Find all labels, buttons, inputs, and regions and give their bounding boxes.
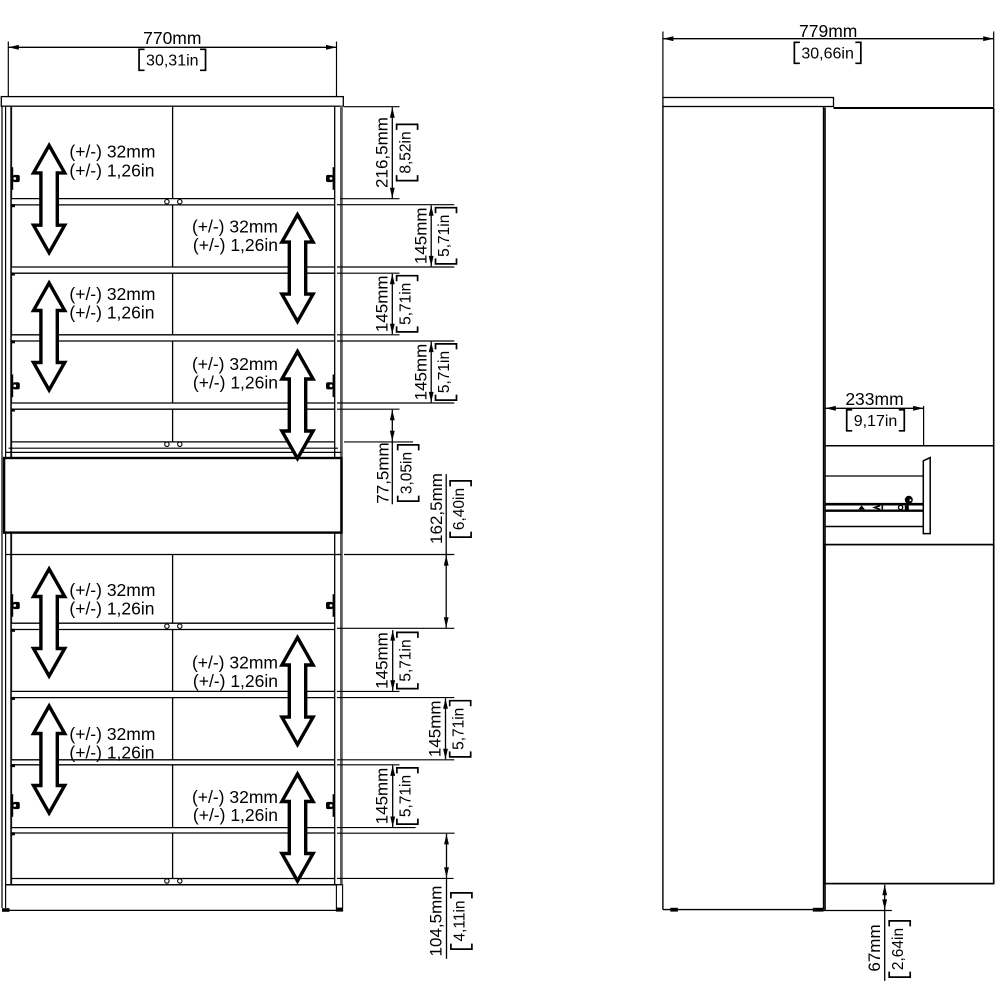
side drawer slide detail circle bbox=[899, 505, 903, 509]
svg-text:(+/-) 32mm: (+/-) 32mm bbox=[192, 217, 278, 237]
front left side panel outer line bbox=[1, 106, 3, 909]
drawer front panel bbox=[4, 458, 341, 533]
front center divider lower bbox=[172, 555, 174, 879]
adjustable shelf arrow A2 bbox=[282, 215, 313, 322]
front right side panel bbox=[340, 106, 343, 885]
svg-text:3,05in: 3,05in bbox=[398, 452, 415, 494]
upper doors bottom line bbox=[11, 441, 335, 443]
dimension 770mm extension line left bbox=[7, 42, 9, 107]
right foot outline bbox=[336, 885, 342, 908]
shelf 2 lower section bbox=[12, 691, 334, 697]
svg-text:67mm: 67mm bbox=[865, 924, 884, 971]
svg-text:779mm: 779mm bbox=[799, 21, 857, 41]
side drawer knob bbox=[905, 496, 913, 504]
side cabinet back edge bbox=[993, 108, 995, 884]
extension line y=833.2 bbox=[337, 832, 455, 834]
side open door bottom edge bbox=[663, 909, 824, 911]
extension line y=554.5 bbox=[344, 554, 454, 556]
svg-text:(+/-) 32mm: (+/-) 32mm bbox=[192, 354, 278, 374]
side drawer front panel bbox=[923, 458, 930, 534]
svg-text:2,64in: 2,64in bbox=[890, 928, 907, 970]
adjustable shelf arrow A6 bbox=[282, 638, 313, 745]
side drawer slide lower bar bbox=[825, 510, 924, 512]
dim 67mm line bbox=[884, 885, 886, 981]
svg-text:104,5mm: 104,5mm bbox=[427, 886, 446, 957]
svg-text:145mm: 145mm bbox=[411, 207, 430, 264]
side lower door panel bbox=[825, 545, 994, 884]
svg-text:(+/-) 1,26in: (+/-) 1,26in bbox=[193, 373, 278, 393]
svg-text:(+/-) 1,26in: (+/-) 1,26in bbox=[69, 160, 154, 180]
extension line y=273.2 bbox=[337, 272, 400, 274]
svg-text:5,71in: 5,71in bbox=[398, 639, 415, 681]
shelf holes upper shelf1 bbox=[165, 200, 169, 204]
hinge bottom-right upper door bbox=[333, 375, 335, 398]
dimension 770mm line bbox=[8, 46, 336, 48]
upper section bottom line b bbox=[6, 451, 342, 453]
side drawer slide detail chevron bbox=[875, 506, 881, 510]
svg-text:9,17in: 9,17in bbox=[854, 413, 898, 430]
hinge top-left upper door bbox=[11, 167, 13, 190]
side open door top edge bbox=[663, 98, 834, 107]
dim 77,5mm line bbox=[391, 410, 393, 505]
svg-text:(+/-) 32mm: (+/-) 32mm bbox=[192, 653, 278, 673]
hinge top-right upper door bbox=[333, 167, 335, 190]
shelf 1 lower section bbox=[12, 623, 334, 629]
svg-text:5,71in: 5,71in bbox=[436, 215, 453, 257]
front center divider upper bbox=[172, 106, 174, 442]
shelf 3 upper section bbox=[12, 335, 334, 341]
svg-text:(+/-) 1,26in: (+/-) 1,26in bbox=[193, 671, 278, 691]
svg-text:5,71in: 5,71in bbox=[450, 708, 467, 750]
dimension 770mm extension line right bbox=[336, 42, 338, 107]
svg-text:145mm: 145mm bbox=[372, 275, 391, 332]
adjustable shelf arrow A8 bbox=[282, 774, 313, 881]
shelf holes lower shelf1 bbox=[165, 624, 169, 628]
svg-text:(+/-) 1,26in: (+/-) 1,26in bbox=[193, 235, 278, 255]
svg-text:(+/-) 1,26in: (+/-) 1,26in bbox=[69, 599, 154, 619]
svg-text:145mm: 145mm bbox=[411, 344, 430, 401]
extension line y=267.0 bbox=[337, 266, 454, 268]
shelf 1 upper section bbox=[12, 199, 334, 205]
shelf 3 lower section bbox=[12, 760, 334, 765]
svg-text:(+/-) 32mm: (+/-) 32mm bbox=[69, 580, 155, 600]
extension line y=878.4 bbox=[337, 877, 454, 879]
side open door left edge bbox=[662, 107, 664, 910]
side door foot right bbox=[813, 908, 824, 912]
right foot pad bbox=[336, 908, 343, 912]
side door foot left bbox=[670, 908, 678, 912]
svg-text:5,71in: 5,71in bbox=[397, 283, 414, 325]
svg-text:145mm: 145mm bbox=[373, 768, 392, 825]
left foot bbox=[2, 908, 10, 912]
svg-text:(+/-) 32mm: (+/-) 32mm bbox=[69, 142, 155, 162]
adjustable shelf arrow A4 bbox=[282, 352, 313, 459]
svg-text:5,71in: 5,71in bbox=[436, 351, 453, 393]
extension line y=827.6 bbox=[337, 827, 416, 829]
dim 233mm line bbox=[825, 407, 923, 409]
upper section bottom line a bbox=[9, 447, 339, 449]
side drawer box bottom line bbox=[825, 526, 924, 528]
svg-text:77,5mm: 77,5mm bbox=[373, 442, 392, 503]
plinth bottom line bbox=[10, 909, 339, 911]
svg-text:(+/-) 1,26in: (+/-) 1,26in bbox=[193, 805, 278, 825]
lower cabinet top line bbox=[6, 554, 342, 556]
extension line y=628.3 bbox=[337, 627, 454, 629]
dim 216,5mm line bbox=[391, 107, 393, 198]
adjustable shelf arrow A3 bbox=[34, 283, 65, 390]
extension line y=691.4 bbox=[337, 690, 400, 692]
svg-text:8,52in: 8,52in bbox=[397, 131, 414, 173]
svg-text:5,71in: 5,71in bbox=[398, 775, 415, 817]
svg-text:6,40in: 6,40in bbox=[451, 488, 468, 530]
side drawer slide upper bar bbox=[825, 503, 924, 506]
dim 104,5mm line bbox=[446, 834, 448, 959]
front right door edge bbox=[334, 106, 336, 885]
side cabinet top line bbox=[834, 107, 994, 109]
side drawer box top line bbox=[825, 475, 924, 477]
front left door edge bbox=[10, 106, 12, 885]
holes upper doors bottom bbox=[165, 442, 169, 446]
svg-text:(+/-) 1,26in: (+/-) 1,26in bbox=[69, 743, 154, 763]
extension line y=764.8 bbox=[337, 764, 400, 766]
side drawer slide detail block bbox=[905, 506, 909, 510]
hinge bottom-left lower door bbox=[11, 794, 13, 817]
extension line y=409.2 bbox=[337, 408, 400, 410]
adjustable shelf arrow A5 bbox=[34, 569, 65, 676]
dim 145mm u3 line bbox=[430, 342, 432, 403]
svg-text:(+/-) 32mm: (+/-) 32mm bbox=[69, 284, 155, 304]
hinge top-left lower door bbox=[11, 594, 13, 617]
dim 145mm l3 line bbox=[392, 765, 394, 827]
lower doors bottom line bbox=[11, 878, 335, 880]
extension line y=441.9 bbox=[344, 441, 413, 443]
adjustable shelf arrow A7 bbox=[34, 706, 65, 813]
svg-text:(+/-) 1,26in: (+/-) 1,26in bbox=[69, 303, 154, 323]
svg-text:216,5mm: 216,5mm bbox=[372, 117, 391, 188]
cabinet bottom line bbox=[6, 884, 342, 886]
side open door right edge bbox=[823, 107, 825, 910]
dim 145mm l2 line bbox=[445, 698, 447, 759]
hinge bottom-left upper door bbox=[11, 375, 13, 398]
extension line y=341.0 bbox=[337, 340, 454, 342]
side drawer slide detail triangle bbox=[858, 505, 865, 509]
holes lower doors bottom bbox=[165, 879, 169, 883]
extension line y=106.7 bbox=[344, 106, 400, 108]
side upper section bottom line bbox=[825, 445, 994, 447]
front top panel bbox=[1, 97, 343, 107]
extension line y=759.8 bbox=[337, 759, 454, 761]
svg-text:(+/-) 32mm: (+/-) 32mm bbox=[69, 724, 155, 744]
svg-text:233mm: 233mm bbox=[845, 389, 903, 409]
extension line y=403.0 bbox=[337, 402, 454, 404]
extension line y=198.7 bbox=[340, 198, 400, 200]
svg-text:145mm: 145mm bbox=[373, 632, 392, 689]
front left side panel inner line bbox=[5, 106, 7, 909]
side floor line bbox=[824, 910, 892, 912]
dimension 779mm line bbox=[663, 38, 994, 40]
svg-text:4,11in: 4,11in bbox=[452, 900, 469, 941]
hinge top-right lower door bbox=[333, 594, 335, 617]
adjustable shelf arrow A1 bbox=[34, 145, 65, 252]
dim 145mm l1 line bbox=[392, 630, 394, 691]
shelf 4 lower section bbox=[12, 828, 334, 833]
extension line y=334.8 bbox=[337, 334, 400, 336]
dimension 779mm extension line left bbox=[662, 32, 664, 98]
svg-text:770mm: 770mm bbox=[143, 28, 201, 48]
extension line y=204.7 bbox=[337, 204, 454, 206]
side cabinet front edge bbox=[824, 108, 826, 911]
shelf 2 upper section bbox=[12, 267, 334, 273]
dim 145mm u1 line bbox=[430, 205, 432, 266]
hinge bottom-right lower door bbox=[333, 794, 335, 817]
shelf 4 upper section bbox=[12, 403, 334, 409]
svg-text:162,5mm: 162,5mm bbox=[427, 473, 446, 544]
extension line y=697.6 bbox=[337, 697, 454, 699]
svg-text:145mm: 145mm bbox=[426, 700, 445, 757]
dim 162,5mm line bbox=[445, 474, 447, 628]
svg-text:30,66in: 30,66in bbox=[801, 46, 854, 63]
dimension 779mm extension line right bbox=[993, 32, 995, 108]
dim 145mm u2 line bbox=[391, 274, 393, 334]
dim 233mm extension line bbox=[923, 406, 925, 447]
svg-text:30,31in: 30,31in bbox=[146, 53, 199, 70]
